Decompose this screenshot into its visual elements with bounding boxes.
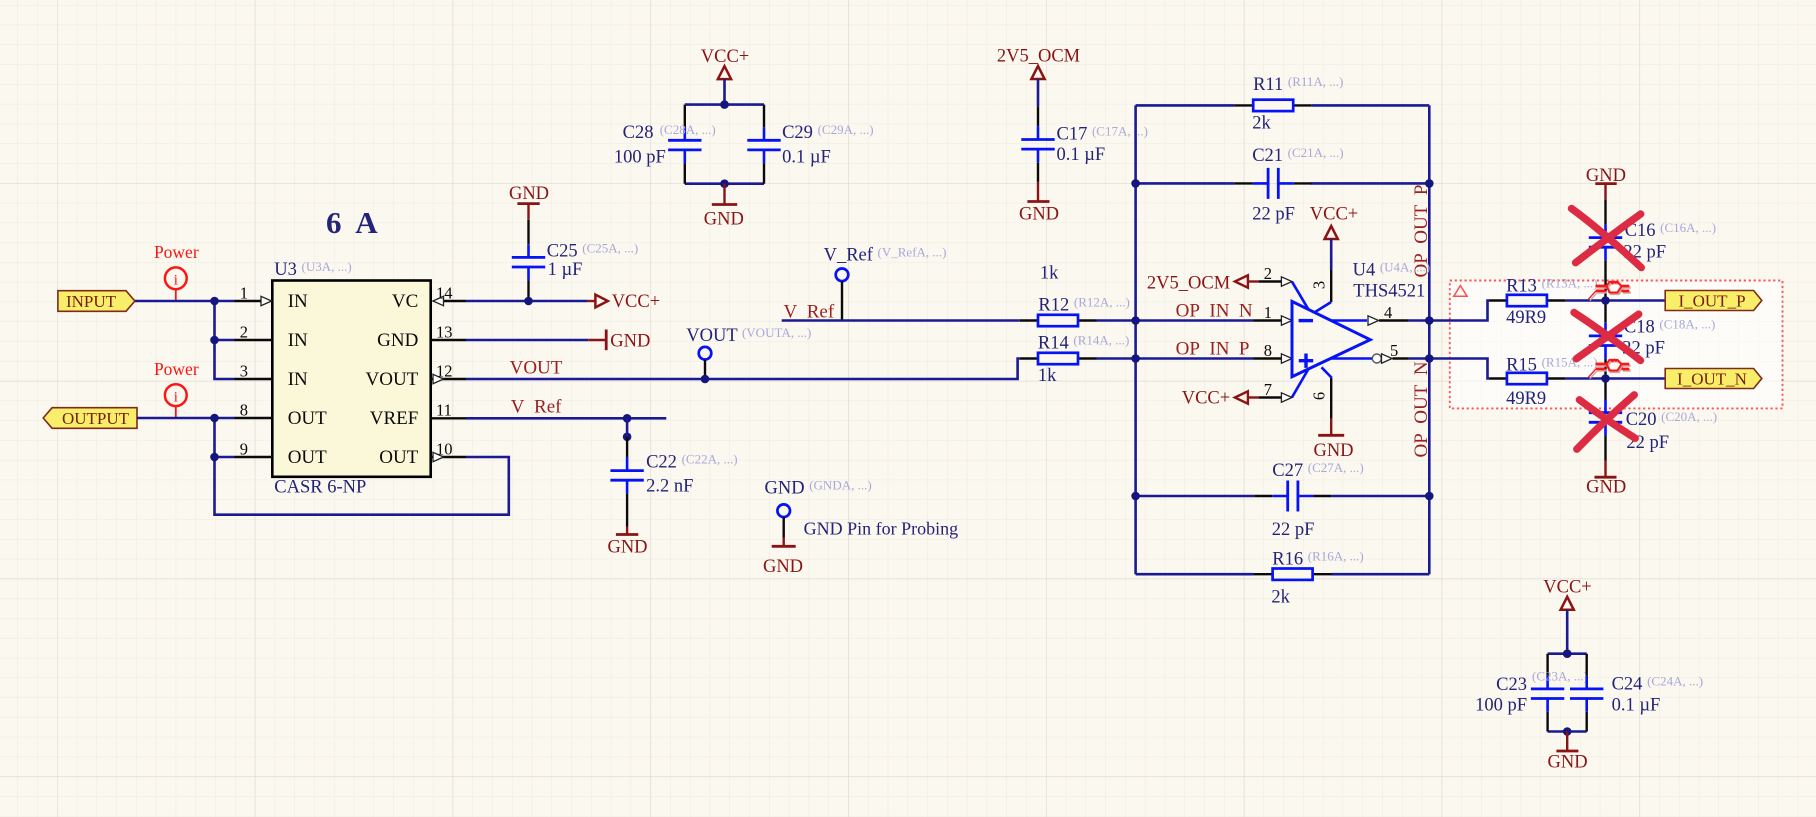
differential pair directive at I_OUT_P junction [1588, 282, 1630, 301]
pin 14 [433, 283, 466, 305]
junction C25/pin14 [524, 297, 533, 306]
wire C23/C24 top rail [1548, 652, 1587, 655]
junction VOUT testpoint [701, 375, 710, 384]
ground GND above C25 [509, 184, 549, 220]
junction dots I_OUT rows [1601, 296, 1610, 305]
wire pin5 to R15 [1409, 359, 1490, 379]
ground GND below C22 [607, 527, 647, 558]
pin 1 [235, 283, 272, 305]
svg-text:GND: GND [509, 184, 549, 204]
svg-text:14: 14 [436, 283, 453, 302]
pin 13 [431, 322, 466, 341]
svg-text:OP IN N: OP IN N [1176, 300, 1253, 321]
svg-text:C28: C28 [623, 123, 654, 143]
not-fitted X over C18 [1574, 313, 1641, 361]
capacitor C16 [1589, 200, 1716, 301]
wire output junction vertical and bottom rail to pin10 [215, 418, 509, 515]
svg-text:8: 8 [1264, 341, 1272, 360]
junction dots left column [210, 297, 219, 306]
wire to pin9 [215, 456, 235, 459]
junction dots C21 row [1131, 179, 1140, 188]
op-amp U4 pin7 stub [1259, 369, 1308, 402]
port I_OUT_N [1665, 369, 1762, 389]
op-amp U4 pin8 stub [1254, 341, 1293, 363]
svg-text:Power: Power [154, 242, 199, 262]
not-fitted X over C20 [1577, 395, 1635, 449]
svg-text:1k: 1k [1038, 366, 1057, 386]
svg-text:IN: IN [288, 330, 308, 351]
wire R14 to op-amp pin8 [1097, 357, 1254, 360]
port OUTPUT [43, 408, 137, 429]
power port VCC+ above C28/C29 [701, 47, 749, 105]
svg-text:Power: Power [154, 359, 199, 379]
svg-text:GND: GND [610, 332, 650, 352]
ground GND below op-amp pin6 [1313, 419, 1353, 461]
svg-text:3: 3 [240, 361, 248, 380]
svg-text:4: 4 [1384, 303, 1392, 322]
ground GND below testpoint [763, 538, 803, 577]
svg-text:49R9: 49R9 [1506, 308, 1546, 328]
svg-text:GND: GND [704, 209, 744, 229]
wire pin11 V_Ref net [466, 417, 666, 420]
ground GND below C20 [1586, 461, 1626, 498]
capacitor C17 [1021, 106, 1148, 182]
svg-text:49R9: 49R9 [1506, 389, 1546, 409]
resistor R12 [1020, 264, 1130, 326]
ground GND at pin13 [588, 330, 650, 352]
svg-text:9: 9 [240, 439, 248, 458]
testpoint V_Ref [824, 245, 947, 321]
svg-text:100 pF: 100 pF [1475, 695, 1527, 715]
svg-text:GND Pin for Probing: GND Pin for Probing [804, 518, 959, 538]
power port VCC+ above op-amp pin3 [1310, 205, 1358, 270]
svg-text:OP OUT P: OP OUT P [1411, 185, 1432, 278]
testpoint GND [765, 477, 872, 537]
svg-text:OP OUT N: OP OUT N [1411, 361, 1432, 457]
pin 8 [235, 400, 273, 419]
svg-text:VCC+: VCC+ [1182, 388, 1230, 408]
svg-text:VCC+: VCC+ [1310, 205, 1358, 225]
wire pin12 VOUT net [466, 359, 1020, 380]
svg-text:12: 12 [436, 361, 453, 380]
svg-text:VCC+: VCC+ [612, 292, 660, 312]
junction dots R12/R14 rows [1131, 316, 1140, 325]
differential pair directive at I_OUT_N junction [1588, 360, 1630, 379]
svg-text:5: 5 [1390, 341, 1398, 360]
svg-text:2V5_OCM: 2V5_OCM [1147, 273, 1230, 293]
svg-text:22 pF: 22 pF [1252, 205, 1295, 225]
resistor R15 [1490, 355, 1598, 409]
ground GND above C16 [1586, 166, 1626, 200]
junction dots C27 row [1131, 492, 1140, 501]
capacitor C23 [1475, 654, 1588, 732]
wire between C22 junctions [626, 418, 629, 437]
power port 2V5_OCM at op-amp pin2 [1147, 273, 1259, 293]
svg-text:C23: C23 [1496, 675, 1527, 695]
svg-text:GND: GND [1548, 753, 1588, 773]
svg-text:1 µF: 1 µF [548, 260, 583, 280]
svg-text:I_OUT_N: I_OUT_N [1677, 369, 1747, 388]
wire R16 row [1136, 573, 1430, 576]
IC U3 CASR 6-NP body [272, 281, 430, 477]
svg-text:CASR 6-NP: CASR 6-NP [274, 477, 366, 497]
power port VCC+ at op-amp pin7 [1182, 388, 1259, 408]
wire pin14 to VCC+ [466, 300, 588, 303]
svg-text:2k: 2k [1271, 587, 1290, 607]
wire left feedback vertical [1134, 105, 1137, 574]
svg-text:IN: IN [288, 369, 308, 390]
svg-text:VOUT: VOUT [366, 369, 419, 390]
resistor R13 [1490, 276, 1598, 328]
wire OUTPUT to pin8 [137, 417, 235, 420]
svg-text:GND: GND [377, 330, 418, 351]
capacitor C21 [1234, 145, 1343, 225]
wire to pin2 [215, 339, 235, 342]
resistor R16 [1254, 548, 1364, 607]
junction dots C28/C29 [720, 100, 729, 109]
wire R15 to I_OUT_N [1566, 377, 1666, 380]
svg-text:GND: GND [1019, 205, 1059, 225]
svg-text:22 pF: 22 pF [1272, 520, 1315, 540]
svg-text:VCC+: VCC+ [1543, 578, 1591, 598]
wire V_Ref net to R12 [782, 319, 1020, 322]
testpoint VOUT [686, 325, 811, 379]
wire INPUT to pin1 [135, 300, 235, 303]
op-amp U4 pin3 [1310, 270, 1332, 312]
op-amp U4 pin5 with bubble [1331, 341, 1409, 363]
svg-text:2.2 nF: 2.2 nF [646, 477, 693, 497]
not-fitted X over C16 [1572, 209, 1642, 268]
junctions at C22 [623, 414, 632, 423]
svg-text:100 pF: 100 pF [614, 147, 666, 167]
port INPUT [58, 291, 135, 312]
junction dots op-amp output rows [1425, 316, 1434, 325]
svg-text:7: 7 [1264, 380, 1272, 399]
svg-text:OUT: OUT [288, 447, 327, 468]
capacitor C24 [1570, 654, 1703, 732]
power indicator 2 (Power) [154, 359, 199, 418]
wire C28/C29 top rail [685, 103, 764, 106]
svg-text:(C23A, ...): (C23A, ...) [1532, 668, 1588, 683]
svg-text:VREF: VREF [370, 408, 419, 429]
svg-text:VCC+: VCC+ [701, 47, 749, 67]
svg-text:I_OUT_P: I_OUT_P [1678, 291, 1745, 310]
svg-text:INPUT: INPUT [66, 292, 117, 311]
resistor R11 [1234, 74, 1343, 134]
capacitor C20 [1589, 379, 1717, 461]
svg-text:0.1 µF: 0.1 µF [1057, 145, 1106, 165]
ground GND below C23/C24 [1548, 732, 1588, 773]
svg-text:GND: GND [763, 557, 803, 577]
port I_OUT_P [1665, 291, 1762, 311]
svg-text:1: 1 [1264, 303, 1272, 322]
svg-text:i: i [174, 390, 178, 406]
svg-text:VC: VC [392, 291, 418, 312]
svg-text:8: 8 [240, 400, 248, 419]
svg-text:(C28A, ...): (C28A, ...) [660, 122, 716, 137]
svg-text:V Ref: V Ref [511, 397, 562, 418]
wire C23/C24 bottom rail [1548, 730, 1587, 733]
svg-text:OP IN P: OP IN P [1176, 339, 1250, 360]
pin 3 [235, 361, 273, 380]
wire R11 row [1136, 104, 1430, 107]
wire C21 row [1136, 182, 1430, 185]
svg-text:11: 11 [436, 400, 452, 419]
svg-text:i: i [174, 273, 178, 289]
capacitor C18 [1589, 301, 1716, 379]
op-amp U4 triangle [1292, 301, 1370, 376]
wire pin4 to R13 [1409, 301, 1490, 321]
wire input junction vertical [215, 301, 235, 379]
blanket red triangle marker [1454, 286, 1467, 297]
svg-text:2k: 2k [1252, 114, 1271, 134]
pin 9 [235, 439, 273, 458]
svg-text:0.1 µF: 0.1 µF [1612, 695, 1661, 715]
svg-text:OUTPUT: OUTPUT [62, 409, 130, 428]
resistor R14 [1020, 333, 1130, 386]
wire C27 row [1136, 495, 1430, 498]
svg-text:0.1 µF: 0.1 µF [782, 147, 831, 167]
capacitor C22 [610, 437, 737, 527]
svg-text:GND: GND [607, 538, 647, 558]
op-amp U4 pin6 [1310, 367, 1332, 418]
ground GND below C28/C29 [704, 184, 744, 230]
svg-text:GND: GND [1313, 441, 1353, 461]
svg-text:2V5_OCM: 2V5_OCM [997, 47, 1080, 67]
wire R12 to op-amp pin1 [1097, 319, 1254, 322]
svg-text:2: 2 [1264, 264, 1272, 283]
svg-text:6 A: 6 A [326, 205, 378, 240]
pin 10 [431, 439, 466, 461]
svg-text:3: 3 [1310, 281, 1329, 289]
svg-text:10: 10 [436, 439, 453, 458]
power port VCC+ above C23/C24 [1543, 578, 1591, 654]
capacitor C28 [614, 105, 716, 184]
svg-text:1: 1 [240, 283, 248, 302]
svg-text:OUT: OUT [379, 447, 418, 468]
svg-text:THS4521: THS4521 [1353, 281, 1425, 301]
svg-text:2: 2 [240, 322, 248, 341]
svg-text:GND: GND [1586, 478, 1626, 498]
power port VCC+ at pin14 [588, 292, 660, 312]
ground GND below C17 [1019, 182, 1059, 225]
op-amp U4 pin1 stub [1254, 303, 1293, 325]
op-amp U4 pin2 stub [1259, 264, 1308, 309]
wire right feedback vertical [1428, 105, 1431, 574]
svg-text:IN: IN [288, 291, 308, 312]
svg-text:6: 6 [1310, 392, 1329, 400]
svg-text:OUT: OUT [288, 408, 327, 429]
junction dots C23/C24 [1563, 649, 1572, 658]
svg-text:13: 13 [436, 322, 453, 341]
svg-text:1k: 1k [1040, 264, 1059, 284]
capacitor C25 [512, 220, 638, 301]
capacitor C27 [1254, 460, 1363, 540]
svg-text:V Ref: V Ref [784, 302, 835, 323]
capacitor C29 [747, 105, 873, 184]
pin 2 [235, 322, 273, 341]
wire pin13 to GND [466, 339, 588, 342]
pin 12 [431, 361, 466, 383]
power indicator 1 (Power) [154, 242, 199, 301]
wire C28/C29 bottom rail [685, 182, 764, 185]
svg-text:VOUT: VOUT [510, 357, 563, 378]
blanket dashed rectangle [1450, 281, 1783, 409]
pin 11 [431, 400, 466, 419]
power port 2V5_OCM above C17 [997, 47, 1080, 107]
wire R13 to I_OUT_P [1566, 299, 1666, 302]
op-amp U4 pin4 [1331, 303, 1409, 325]
